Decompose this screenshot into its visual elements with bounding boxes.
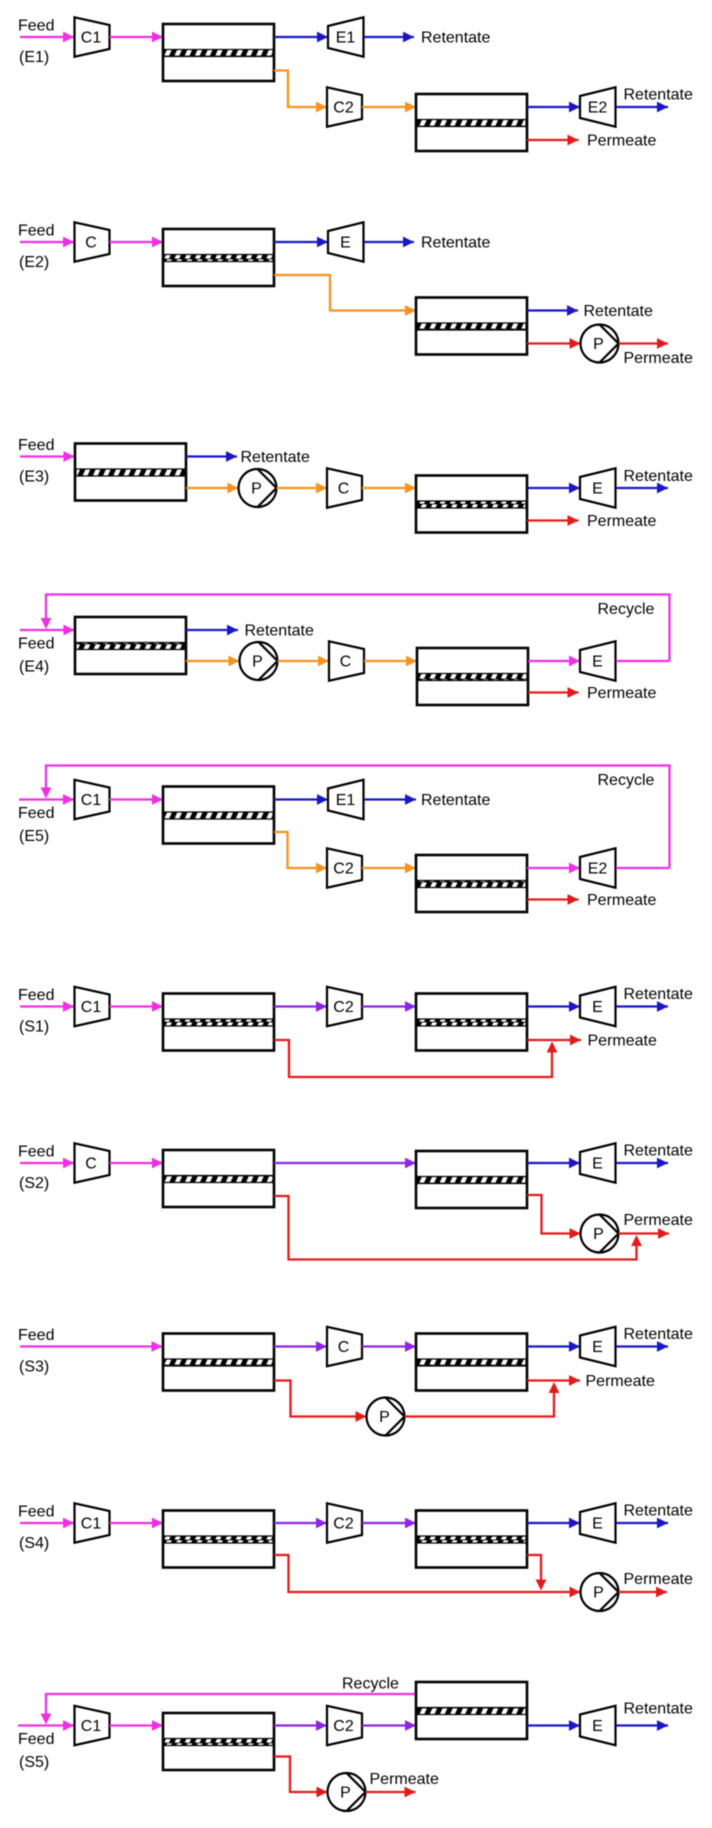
svg-text:Retentate: Retentate [624, 1143, 693, 1160]
svg-text:Retentate: Retentate [624, 87, 693, 104]
wire permeate to pump [186, 660, 240, 662]
wire C1 to membrane [110, 1005, 164, 1007]
wire feed arrow [20, 36, 74, 38]
membrane module 1 [163, 994, 274, 1051]
compressor C2 [327, 848, 362, 887]
svg-text:P: P [379, 1409, 390, 1426]
svg-text:C1: C1 [81, 1718, 102, 1735]
svg-text:Recycle: Recycle [342, 1676, 399, 1693]
wire retentate to E [527, 1162, 580, 1164]
membrane module 2 [416, 476, 527, 533]
wire membrane1 permeate join [274, 1196, 637, 1260]
wire retentate to E [528, 660, 580, 662]
wire E retentate out [616, 1345, 668, 1347]
expander E [580, 1143, 616, 1182]
wire membrane1 permeate join [274, 1040, 552, 1077]
wire retentate to E1 [274, 798, 328, 800]
svg-text:Feed: Feed [18, 1327, 54, 1344]
wire retentate out [186, 629, 238, 631]
expander E [580, 1503, 616, 1542]
svg-text:C: C [85, 1156, 97, 1173]
wire feed arrow [20, 1522, 74, 1524]
membrane module 1 [163, 1334, 274, 1391]
compressor C2 [327, 1706, 362, 1745]
join arrow down [536, 1580, 547, 1591]
compressor C2 [327, 1503, 362, 1542]
svg-text:E1: E1 [336, 30, 356, 47]
svg-text:Retentate: Retentate [241, 449, 310, 466]
wire permeate out [527, 898, 579, 900]
svg-text:P: P [252, 654, 263, 671]
svg-text:Retentate: Retentate [421, 792, 490, 809]
compressor C2 [327, 987, 362, 1026]
svg-text:C1: C1 [81, 1516, 102, 1533]
svg-text:Permeate: Permeate [587, 685, 656, 702]
wire pump to C [277, 487, 328, 489]
wire C1 to membrane [110, 1522, 164, 1524]
wire E1 retentate out [364, 798, 416, 800]
svg-text:Permeate: Permeate [588, 1033, 657, 1050]
svg-text:Feed: Feed [18, 1144, 54, 1161]
wire E retentate out [364, 241, 414, 243]
pump P [367, 1398, 405, 1436]
wire C to membrane 2 [364, 660, 417, 662]
wire pump to C [278, 660, 330, 662]
compressor C [329, 641, 364, 680]
wire C2 to membrane 2 [362, 867, 416, 869]
compressor C1 [75, 987, 110, 1026]
wire retentate to E [527, 1005, 580, 1007]
wire retentate to membrane 2 [274, 1162, 416, 1164]
svg-text:E: E [592, 999, 603, 1016]
expander E2 [580, 848, 616, 887]
svg-text:Retentate: Retentate [584, 303, 653, 320]
svg-text:(S2): (S2) [19, 1175, 49, 1192]
svg-text:E2: E2 [588, 861, 608, 878]
recycle junction arrow [41, 618, 52, 629]
wire E2 to recycle [616, 867, 670, 869]
svg-text:E: E [592, 1156, 603, 1173]
join arrow up [631, 1235, 642, 1246]
expander E [580, 1706, 616, 1745]
wire recycle line [46, 1694, 416, 1716]
svg-text:Feed: Feed [18, 1504, 54, 1521]
pump P [240, 642, 278, 680]
wire C1 to membrane [110, 36, 164, 38]
svg-text:Retentate: Retentate [624, 986, 693, 1003]
wire C1 to membrane [110, 798, 164, 800]
wire permeate to pump [527, 1195, 581, 1234]
wire retentate to E [527, 487, 580, 489]
svg-text:(E3): (E3) [19, 469, 49, 486]
wire permeate to C2 [274, 71, 327, 108]
membrane module 2 [416, 855, 527, 912]
wire retentate to E2 [527, 106, 580, 108]
pump P [581, 1573, 619, 1611]
wire retentate to E [274, 241, 328, 243]
wire feed arrow [20, 629, 75, 631]
svg-text:C: C [85, 235, 97, 252]
svg-text:(S1): (S1) [19, 1019, 49, 1036]
wire E to recycle [616, 660, 670, 662]
svg-text:P: P [340, 1785, 351, 1802]
svg-text:C2: C2 [333, 100, 354, 117]
wire permeate to pump [527, 342, 581, 344]
wire recycle line [46, 595, 670, 662]
svg-text:C1: C1 [81, 30, 102, 47]
wire C to membrane [110, 241, 164, 243]
wire permeate out [528, 691, 579, 693]
svg-text:(E1): (E1) [19, 49, 49, 66]
wire E2 retentate out [616, 106, 668, 108]
compressor C1 [75, 17, 110, 56]
wire pump permeate out [619, 342, 669, 344]
svg-text:(S4): (S4) [19, 1535, 49, 1552]
svg-text:E: E [592, 1718, 603, 1735]
wire E retentate out [616, 1005, 668, 1007]
expander E [580, 641, 616, 680]
wire membrane1 permeate to pump [274, 1757, 328, 1793]
wire pump permeate out [619, 1591, 668, 1593]
svg-text:C2: C2 [333, 1516, 354, 1533]
svg-text:Retentate: Retentate [624, 468, 693, 485]
wire retentate to C2 [274, 1005, 327, 1007]
svg-text:P: P [593, 1585, 604, 1602]
expander E [580, 987, 616, 1026]
wire E1 retentate out [364, 36, 414, 38]
compressor C1 [75, 780, 110, 819]
wire feed arrow [20, 1345, 163, 1347]
compressor C [75, 222, 110, 261]
svg-text:Feed: Feed [18, 437, 54, 454]
membrane module 2 [416, 1334, 527, 1391]
svg-text:C2: C2 [333, 861, 354, 878]
svg-text:C: C [338, 1339, 350, 1356]
join arrow up [547, 1042, 558, 1053]
wire retentate out [186, 455, 237, 457]
svg-text:Retentate: Retentate [421, 235, 490, 252]
svg-text:E2: E2 [588, 100, 608, 117]
pump P [328, 1773, 366, 1811]
svg-text:(E2): (E2) [19, 254, 49, 271]
pump P [581, 325, 619, 363]
compressor C [327, 1327, 362, 1366]
wire E retentate out [616, 487, 668, 489]
svg-text:Retentate: Retentate [624, 1326, 693, 1343]
membrane module 1 [163, 24, 274, 81]
wire C to membrane [110, 1162, 164, 1164]
membrane module 1 [75, 444, 186, 501]
svg-text:E: E [592, 654, 603, 671]
svg-text:P: P [251, 481, 262, 498]
svg-text:Feed: Feed [18, 636, 54, 653]
membrane module 2 [416, 1511, 527, 1568]
wire retentate to E1 [274, 36, 328, 38]
expander E [328, 222, 364, 261]
wire C2 to membrane 2 [362, 106, 416, 108]
svg-text:E: E [592, 481, 603, 498]
join arrow up [549, 1382, 560, 1393]
wire feed arrow [18, 1724, 74, 1726]
svg-text:(E4): (E4) [19, 659, 49, 676]
wire E retentate out [616, 1724, 668, 1726]
expander E [580, 468, 616, 507]
svg-text:(S3): (S3) [19, 1359, 49, 1376]
wire retentate out [527, 309, 578, 311]
wire C2 to membrane 2 [362, 1522, 416, 1524]
svg-text:(E5): (E5) [19, 828, 49, 845]
wire feed arrow [20, 455, 75, 457]
svg-text:Permeate: Permeate [624, 1212, 693, 1229]
wire membrane1 permeate to pump [274, 1555, 581, 1592]
wire feed arrow [20, 241, 74, 243]
svg-text:Retentate: Retentate [421, 30, 490, 47]
svg-text:C: C [338, 481, 350, 498]
wire feed arrow [20, 1005, 74, 1007]
svg-text:Permeate: Permeate [587, 513, 656, 530]
membrane module 2 [416, 1682, 527, 1739]
wire C to membrane 2 [362, 487, 416, 489]
wire permeate out [527, 519, 579, 521]
svg-text:E1: E1 [336, 792, 356, 809]
svg-text:Permeate: Permeate [586, 1373, 655, 1390]
wire membrane1 permeate to pump [274, 1381, 367, 1417]
wire C1 to membrane [110, 1724, 164, 1726]
membrane module 2 [416, 994, 527, 1051]
wire permeate out [527, 1379, 580, 1381]
wire permeate out [527, 139, 579, 141]
compressor C2 [327, 87, 362, 126]
svg-text:Permeate: Permeate [624, 350, 693, 367]
wire permeate to membrane 2 [274, 275, 416, 311]
pump P [239, 469, 277, 507]
svg-text:C1: C1 [81, 999, 102, 1016]
svg-text:(S5): (S5) [19, 1754, 49, 1771]
membrane module 2 [416, 94, 527, 151]
svg-text:Recycle: Recycle [598, 772, 655, 789]
pump P [581, 1215, 619, 1253]
wire E retentate out [616, 1522, 668, 1524]
membrane module 2 [417, 648, 528, 705]
membrane module 1 [163, 1150, 274, 1207]
wire pump permeate out [366, 1791, 416, 1793]
expander E [580, 1327, 616, 1366]
wire retentate to C [274, 1345, 327, 1347]
wire pump permeate out [619, 1232, 670, 1234]
svg-text:Retentate: Retentate [624, 1503, 693, 1520]
wire permeate to C2 [274, 832, 327, 868]
wire retentate to E [527, 1345, 580, 1347]
expander E1 [328, 17, 364, 56]
svg-text:Permeate: Permeate [624, 1571, 693, 1588]
compressor C1 [75, 1706, 110, 1745]
expander E2 [580, 87, 616, 126]
membrane module 2 [416, 1151, 527, 1208]
wire C2 to membrane 2 [362, 1724, 416, 1726]
wire retentate to E [527, 1522, 580, 1524]
compressor C1 [75, 1503, 110, 1542]
svg-text:Feed: Feed [18, 805, 54, 822]
svg-text:C1: C1 [81, 792, 102, 809]
svg-text:P: P [593, 336, 604, 353]
membrane module 1 [163, 1511, 274, 1568]
expander E1 [328, 780, 364, 819]
svg-text:C: C [340, 654, 352, 671]
svg-text:Recycle: Recycle [598, 601, 655, 618]
wire C to membrane 2 [362, 1345, 416, 1347]
svg-text:Feed: Feed [18, 987, 54, 1004]
svg-text:E: E [592, 1339, 603, 1356]
wire retentate to E2 [527, 867, 580, 869]
svg-text:Permeate: Permeate [370, 1771, 439, 1788]
svg-text:P: P [593, 1226, 604, 1243]
recycle junction arrow [41, 1714, 52, 1725]
wire retentate to C2 [274, 1522, 327, 1524]
wire feed arrow [19, 798, 74, 800]
wire recycle line [46, 766, 670, 869]
svg-text:Retentate: Retentate [245, 623, 314, 640]
svg-text:Feed: Feed [18, 1731, 54, 1748]
svg-text:C2: C2 [333, 999, 354, 1016]
wire C2 to membrane 2 [362, 1005, 416, 1007]
wire permeate out [527, 1039, 581, 1041]
svg-text:Feed: Feed [18, 223, 54, 240]
svg-text:C2: C2 [333, 1718, 354, 1735]
wire pump join [405, 1393, 555, 1417]
wire membrane2 permeate join [527, 1555, 541, 1580]
membrane module 1 [75, 617, 186, 674]
membrane module 1 [163, 1713, 274, 1770]
svg-text:E: E [592, 1516, 603, 1533]
svg-text:E: E [340, 235, 351, 252]
wire feed arrow [20, 1162, 74, 1164]
svg-text:Retentate: Retentate [624, 1701, 693, 1718]
compressor C [327, 468, 362, 507]
wire E retentate out [616, 1162, 668, 1164]
membrane module 1 [163, 787, 274, 844]
recycle junction arrow [41, 788, 52, 799]
wire permeate to pump [186, 487, 239, 489]
membrane module 1 [163, 229, 274, 286]
wire retentate to E [527, 1724, 580, 1726]
membrane module 2 [416, 298, 527, 355]
compressor C [75, 1143, 110, 1182]
svg-text:Feed: Feed [18, 18, 54, 35]
wire retentate to C2 [274, 1724, 327, 1726]
svg-text:Permeate: Permeate [587, 133, 656, 150]
svg-text:Permeate: Permeate [587, 892, 656, 909]
